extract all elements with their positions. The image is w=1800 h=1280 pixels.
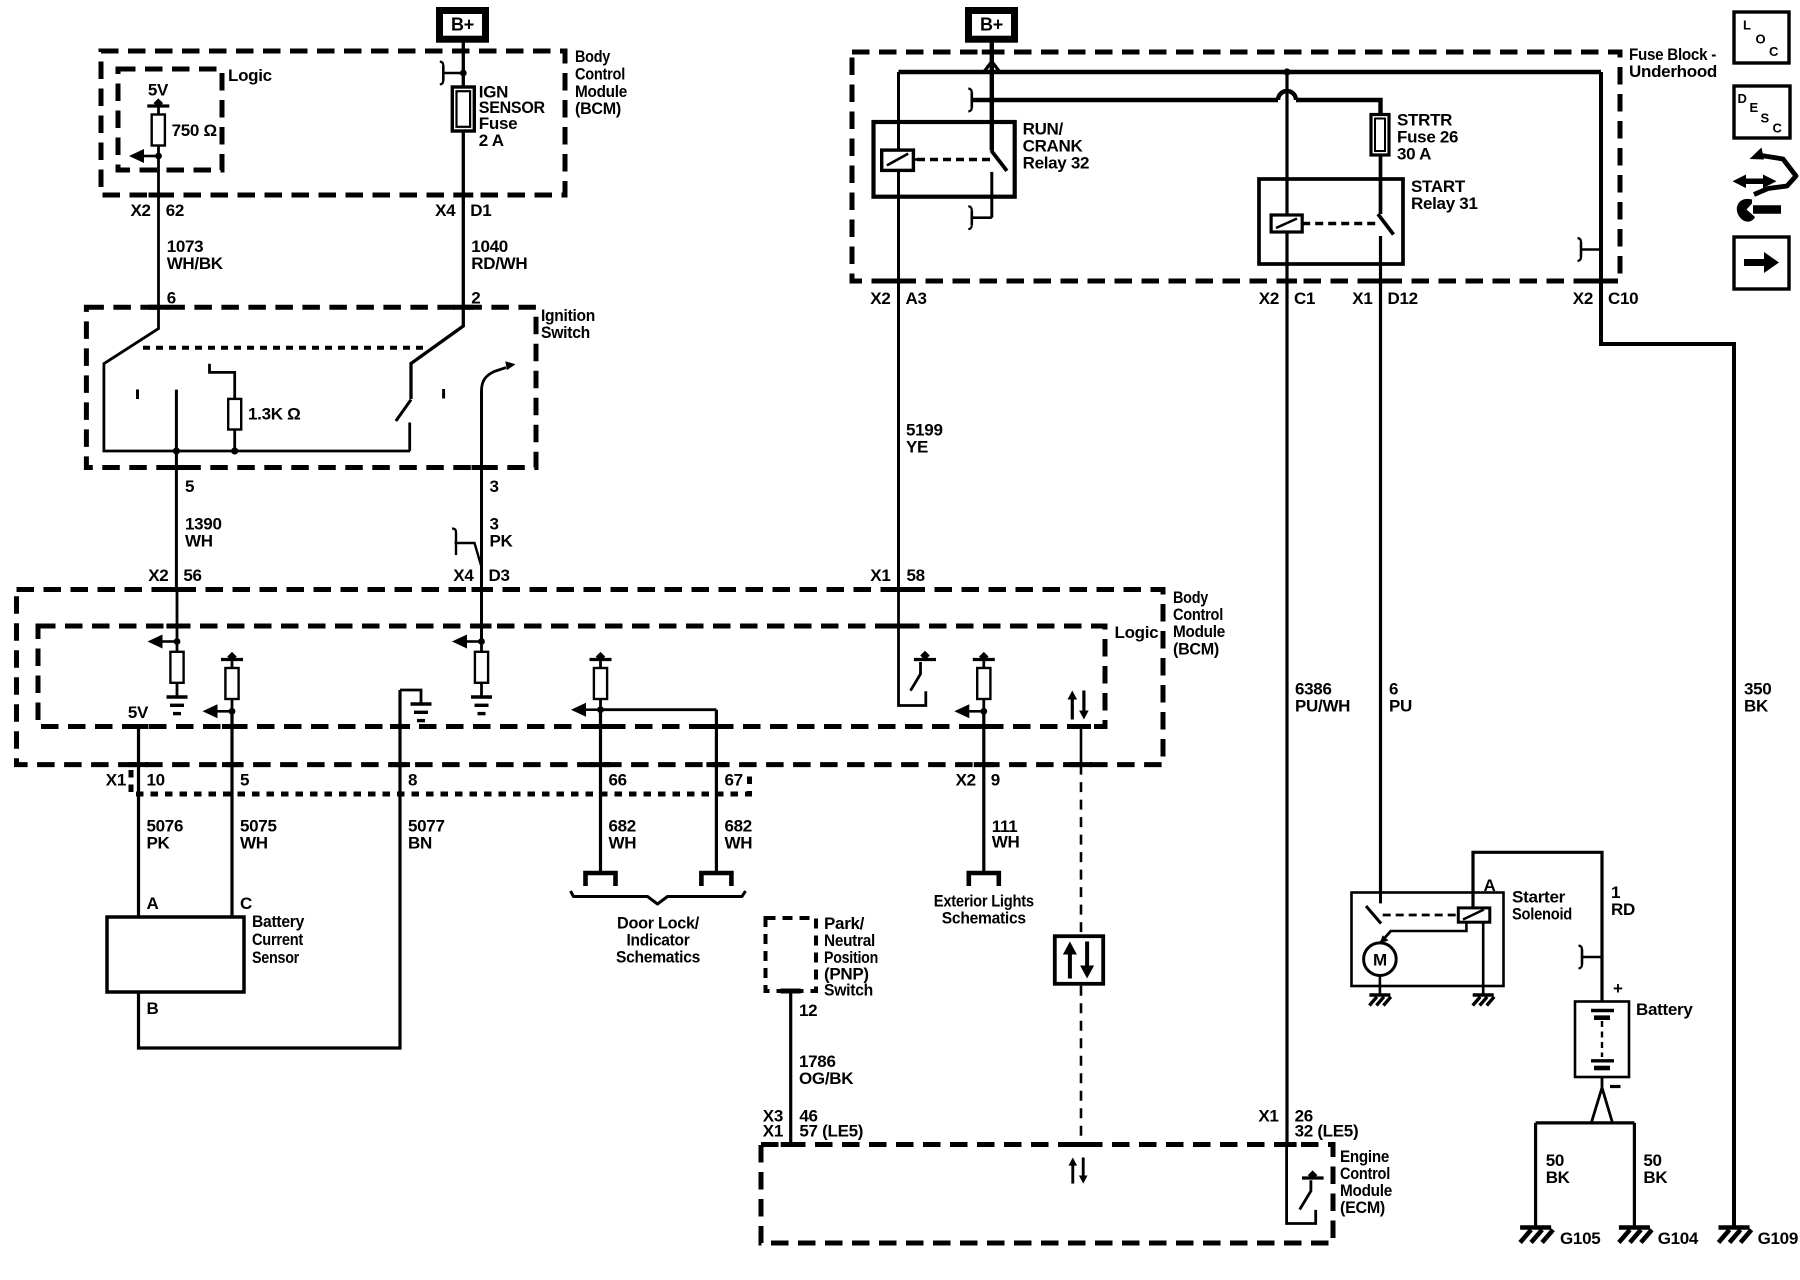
- svg-text:C1: C1: [1294, 289, 1315, 308]
- svg-text:X2: X2: [870, 289, 890, 308]
- svg-text:6: 6: [167, 289, 176, 308]
- svg-text:A3: A3: [906, 289, 927, 308]
- svg-text:Logic: Logic: [228, 66, 272, 85]
- svg-text:62: 62: [166, 201, 184, 220]
- svg-text:57 (LE5): 57 (LE5): [799, 1122, 863, 1141]
- svg-text:C: C: [240, 894, 252, 913]
- svg-text:B+: B+: [451, 15, 474, 35]
- svg-text:Current: Current: [252, 930, 304, 949]
- svg-text:Sensor: Sensor: [252, 948, 300, 967]
- svg-text:Body: Body: [575, 47, 611, 66]
- svg-text:Switch: Switch: [824, 981, 873, 1000]
- svg-text:8: 8: [408, 771, 417, 790]
- svg-text:BK: BK: [1643, 1168, 1668, 1187]
- svg-text:67: 67: [725, 771, 743, 790]
- svg-text:O: O: [1756, 32, 1766, 47]
- svg-text:G109: G109: [1758, 1229, 1798, 1248]
- svg-text:X1: X1: [870, 566, 890, 585]
- svg-text:M: M: [1373, 951, 1387, 970]
- svg-text:X1: X1: [1352, 289, 1372, 308]
- svg-text:+: +: [1613, 979, 1623, 998]
- svg-text:A: A: [147, 894, 159, 913]
- svg-text:2: 2: [471, 289, 480, 308]
- svg-text:1.3K Ω: 1.3K Ω: [248, 405, 300, 424]
- svg-text:BN: BN: [408, 834, 432, 853]
- svg-text:10: 10: [147, 771, 165, 790]
- svg-text:B: B: [147, 999, 159, 1018]
- svg-text:X4: X4: [453, 566, 474, 585]
- svg-text:WH: WH: [240, 834, 268, 853]
- svg-text:X1: X1: [763, 1122, 783, 1141]
- svg-text:5V: 5V: [148, 81, 169, 100]
- svg-text:D12: D12: [1388, 289, 1418, 308]
- svg-text:30 A: 30 A: [1397, 145, 1431, 164]
- svg-text:X2: X2: [148, 566, 168, 585]
- svg-text:X2: X2: [956, 771, 976, 790]
- svg-text:PK: PK: [490, 532, 514, 551]
- svg-text:Underhood: Underhood: [1629, 62, 1717, 81]
- svg-text:Solenoid: Solenoid: [1512, 905, 1572, 924]
- svg-text:12: 12: [799, 1001, 817, 1020]
- svg-text:Logic: Logic: [1115, 623, 1159, 642]
- svg-text:G104: G104: [1658, 1229, 1699, 1248]
- svg-text:Module: Module: [1173, 622, 1225, 641]
- svg-text:WH: WH: [725, 834, 753, 853]
- svg-text:L: L: [1743, 18, 1751, 33]
- svg-text:RD/WH: RD/WH: [471, 254, 527, 273]
- svg-text:D1: D1: [470, 201, 491, 220]
- svg-text:X1: X1: [106, 771, 126, 790]
- svg-text:5V: 5V: [128, 703, 149, 722]
- svg-text:RD: RD: [1611, 900, 1635, 919]
- svg-text:Schematics: Schematics: [942, 909, 1026, 928]
- svg-text:Battery: Battery: [252, 912, 305, 931]
- svg-text:Relay 32: Relay 32: [1023, 154, 1090, 173]
- svg-text:2 A: 2 A: [479, 131, 504, 150]
- svg-text:X4: X4: [435, 201, 456, 220]
- svg-text:9: 9: [991, 771, 1000, 790]
- svg-text:YE: YE: [906, 438, 928, 457]
- svg-text:5: 5: [240, 771, 249, 790]
- svg-text:WH: WH: [992, 833, 1020, 852]
- svg-text:WH/BK: WH/BK: [167, 254, 224, 273]
- svg-text:C: C: [1773, 121, 1783, 136]
- svg-text:58: 58: [907, 566, 925, 585]
- svg-text:3: 3: [490, 477, 499, 496]
- svg-text:X1: X1: [1258, 1107, 1278, 1126]
- svg-text:66: 66: [609, 771, 627, 790]
- svg-text:B+: B+: [980, 15, 1003, 35]
- svg-text:(ECM): (ECM): [1340, 1198, 1385, 1217]
- svg-text:G105: G105: [1560, 1229, 1600, 1248]
- svg-text:PK: PK: [147, 834, 171, 853]
- svg-text:PU: PU: [1389, 697, 1412, 716]
- svg-text:(BCM): (BCM): [575, 99, 621, 118]
- svg-text:X2: X2: [1573, 289, 1593, 308]
- svg-text:Relay 31: Relay 31: [1411, 194, 1478, 213]
- svg-text:D: D: [1738, 91, 1747, 106]
- svg-text:X2: X2: [1259, 289, 1279, 308]
- svg-text:Control: Control: [575, 65, 625, 84]
- svg-text:Battery: Battery: [1636, 1000, 1693, 1019]
- svg-text:S: S: [1761, 111, 1770, 126]
- svg-text:BK: BK: [1546, 1168, 1571, 1187]
- svg-text:E: E: [1750, 100, 1759, 115]
- svg-text:WH: WH: [609, 834, 637, 853]
- svg-text:56: 56: [183, 566, 201, 585]
- svg-text:D3: D3: [489, 566, 510, 585]
- svg-text:Schematics: Schematics: [616, 948, 700, 967]
- svg-text:WH: WH: [185, 532, 213, 551]
- svg-text:(BCM): (BCM): [1173, 640, 1219, 659]
- svg-text:X2: X2: [130, 201, 150, 220]
- svg-text:C: C: [1769, 44, 1779, 59]
- svg-text:5: 5: [185, 477, 194, 496]
- svg-text:32 (LE5): 32 (LE5): [1295, 1122, 1359, 1141]
- svg-text:Switch: Switch: [541, 323, 590, 342]
- svg-text:BK: BK: [1744, 697, 1769, 716]
- svg-text:A: A: [1484, 876, 1496, 895]
- svg-text:OG/BK: OG/BK: [799, 1069, 854, 1088]
- svg-text:PU/WH: PU/WH: [1295, 697, 1350, 716]
- svg-text:C10: C10: [1608, 289, 1638, 308]
- svg-text:750 Ω: 750 Ω: [172, 121, 217, 140]
